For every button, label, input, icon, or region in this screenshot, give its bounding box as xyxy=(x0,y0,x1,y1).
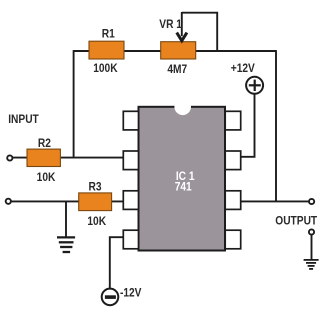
pin 7 xyxy=(225,151,241,170)
input terminal 1 xyxy=(7,155,12,160)
svg-text:-12V: -12V xyxy=(120,287,142,300)
svg-text:R3: R3 xyxy=(88,181,101,194)
svg-text:10K: 10K xyxy=(87,215,106,228)
pin 8 xyxy=(225,111,241,130)
pin 5 xyxy=(225,230,241,249)
op-amp U1 IC1 741 body xyxy=(139,107,226,251)
output terminal xyxy=(309,199,314,204)
wire: output from pin6 xyxy=(240,200,309,202)
svg-text:INPUT: INPUT xyxy=(8,113,39,126)
wire: input2 to pin3 xyxy=(11,200,125,202)
wire: left feedback vertical xyxy=(73,50,75,158)
VR1 wiper arrowhead xyxy=(177,33,187,41)
svg-text:R1: R1 xyxy=(102,28,115,41)
input terminal 2 xyxy=(6,199,11,204)
wire: VR1 wiper loop top xyxy=(182,13,217,51)
svg-text:741: 741 xyxy=(175,181,192,194)
svg-text:10K: 10K xyxy=(37,171,56,184)
+12V supply symbol xyxy=(246,77,263,94)
pin 4 xyxy=(123,230,138,249)
resistor R3 xyxy=(79,193,112,211)
IC notch xyxy=(174,99,191,116)
pin 3 xyxy=(123,191,138,210)
pin 1 xyxy=(123,111,138,130)
svg-text:VR 1: VR 1 xyxy=(159,18,182,31)
wire: right feedback vertical xyxy=(275,50,277,201)
svg-text:OUTPUT: OUTPUT xyxy=(275,215,317,228)
VR1 wiper arrow stem xyxy=(181,12,183,36)
svg-text:R2: R2 xyxy=(38,138,51,151)
svg-text:4M7: 4M7 xyxy=(167,63,187,76)
wire: output terminal to ground xyxy=(311,235,313,260)
wire: ground drop from input2 wire xyxy=(65,201,67,236)
pin 6 xyxy=(225,191,241,210)
output ground terminal xyxy=(309,229,314,234)
pin 2 xyxy=(123,151,138,170)
ground (output, earth) xyxy=(304,260,319,269)
ground (left, earth) xyxy=(57,237,75,252)
wire: main top feedback wire xyxy=(74,50,276,52)
svg-text:100K: 100K xyxy=(93,62,117,75)
potentiometer VR1 xyxy=(161,42,196,59)
-12V supply symbol xyxy=(102,289,119,306)
resistor R2 xyxy=(27,149,60,166)
wire: +12V drop to pin7 xyxy=(240,94,255,157)
wire: -12V from pin4 xyxy=(110,237,125,288)
resistor R1 xyxy=(89,41,124,59)
svg-text:+12V: +12V xyxy=(231,62,256,75)
wire: input1 to pin2 xyxy=(12,157,125,159)
